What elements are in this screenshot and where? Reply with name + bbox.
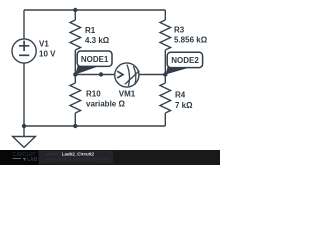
svg-text:R4: R4 xyxy=(175,91,186,100)
wire: bottom rail xyxy=(24,125,165,127)
junction dot node1 xyxy=(73,72,77,76)
svg-text:LAB: LAB xyxy=(27,157,38,163)
wire: left rail upper xyxy=(23,10,25,39)
footer logo LAB xyxy=(13,159,27,161)
wire: voltmeter to node2 xyxy=(139,74,165,76)
svg-text:NODE2: NODE2 xyxy=(171,56,199,65)
svg-text:VM1: VM1 xyxy=(119,90,136,99)
svg-text:4.3 kΩ: 4.3 kΩ xyxy=(85,36,110,45)
node NODE1 flag tail xyxy=(75,59,98,75)
svg-text:R3: R3 xyxy=(174,25,185,34)
voltmeter VM1 xyxy=(115,63,140,87)
svg-text:7 kΩ: 7 kΩ xyxy=(175,101,193,110)
resistor R4 xyxy=(160,75,171,127)
svg-text:R10: R10 xyxy=(86,90,101,99)
svg-text:NODE1: NODE1 xyxy=(81,55,109,64)
resistor R3 xyxy=(160,10,171,75)
voltage source V1 xyxy=(12,39,36,63)
node NODE2 flag tail xyxy=(165,61,188,75)
junction dot node2 xyxy=(163,72,167,76)
junction dot at top of R1 xyxy=(73,8,77,12)
svg-text:R1: R1 xyxy=(85,26,96,35)
wire: top rail xyxy=(24,9,165,11)
voltmeter VM1 arrow glyph xyxy=(117,71,123,78)
footer text panel xyxy=(39,151,114,164)
node NODE1 label box xyxy=(77,51,112,66)
svg-text:10 V: 10 V xyxy=(39,49,56,58)
svg-text:variable Ω: variable Ω xyxy=(86,100,125,109)
svg-text:V1: V1 xyxy=(39,40,49,49)
resistor R10 xyxy=(70,75,81,127)
junction dot bottom of R10 xyxy=(73,124,77,128)
wire: node1 to voltmeter xyxy=(75,74,115,76)
footer logo background xyxy=(0,150,39,165)
node NODE2 label box xyxy=(167,52,202,67)
junction dot ground xyxy=(22,124,26,128)
svg-text:5.856 kΩ: 5.856 kΩ xyxy=(174,36,208,45)
wire: left rail lower xyxy=(23,63,25,126)
footer bar xyxy=(0,150,220,165)
svg-text:http://circuitlab.com/c6d65678: http://circuitlab.com/c6d65678m47q xyxy=(46,156,109,161)
ground xyxy=(13,126,36,147)
resistor R1 xyxy=(70,10,81,75)
junction dot voltmeter left xyxy=(99,72,103,76)
